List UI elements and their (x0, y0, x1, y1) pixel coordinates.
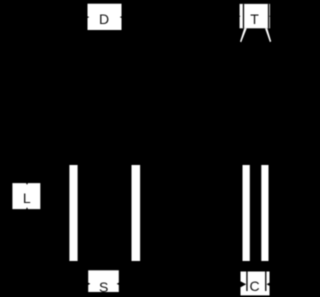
plate P1 (left pair, left plate) (69, 165, 77, 261)
dimension arrow tip right of D (120, 16, 122, 18)
extension line through C (left) (246, 272, 247, 292)
svg-text:C: C (249, 278, 259, 294)
extension line through C (right) (265, 272, 266, 292)
hollow leader arrow below T (left) (240, 28, 247, 42)
label box S (88, 270, 119, 295)
label box C (241, 272, 270, 296)
svg-text:D: D (99, 11, 109, 27)
dimension arrow tip above L (26, 183, 28, 185)
svg-text:L: L (23, 190, 31, 206)
dimension arrow tip left of S (88, 283, 90, 285)
extension line through T (left) (243, 4, 244, 28)
dimension arrow tip left of D (87, 16, 89, 18)
dimension arrow tip below L (26, 207, 28, 209)
dimension arrow tip right of S (117, 283, 119, 285)
plate P2 (left pair, right plate) (132, 165, 141, 261)
dimension arrow tip right of T (269, 15, 271, 17)
dimension arrow pointing right at C gap (240, 281, 246, 287)
label box L (12, 183, 40, 209)
label box D (88, 4, 122, 30)
svg-text:T: T (250, 11, 259, 27)
dimension arrow pointing left at C gap (267, 281, 273, 287)
dimension arrow tip left of T (238, 15, 240, 17)
label box T (240, 4, 270, 28)
svg-text:S: S (99, 279, 108, 295)
extension line through T (right) (268, 4, 269, 28)
plate P3 (right pair, left plate) (243, 165, 250, 261)
hollow leader arrow below T (right) (265, 28, 271, 42)
plate P4 (right pair, right plate) (261, 165, 268, 261)
